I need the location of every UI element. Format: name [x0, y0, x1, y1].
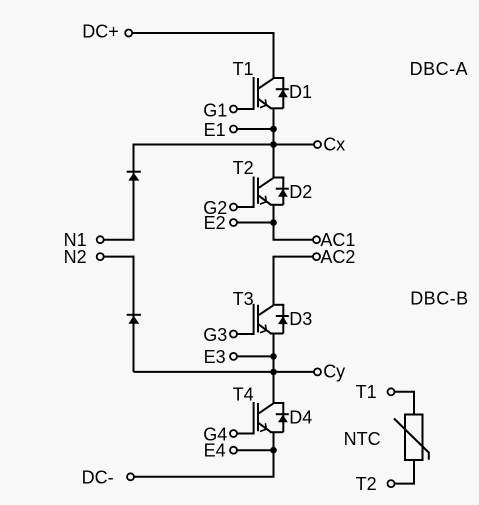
- terminal G4: [230, 430, 237, 437]
- terminal AC2: [313, 253, 320, 260]
- wire clamp branch A vertical: [133, 144, 135, 240]
- terminal Cy: [314, 368, 321, 375]
- wire T3 emitter to T4 collector: [273, 334, 275, 404]
- terminal AC1: [313, 236, 320, 243]
- terminal E1: [230, 126, 237, 133]
- svg-text:T4: T4: [233, 385, 254, 405]
- diode D4: [276, 414, 289, 422]
- wire DC+ rail horizontal: [132, 32, 273, 34]
- svg-text:Cy: Cy: [323, 362, 345, 382]
- thermistor NTC body: [405, 415, 423, 461]
- wire Cx row: [134, 144, 315, 146]
- junction Cy: [270, 369, 277, 376]
- clamp diode DN1: [127, 172, 141, 181]
- wire NTC T1 to thermistor: [394, 392, 414, 415]
- wire G1 lead: [237, 108, 254, 110]
- wire N2 lead: [104, 256, 135, 258]
- svg-text:G1: G1: [203, 101, 227, 121]
- svg-text:AC2: AC2: [320, 247, 355, 267]
- svg-text:DBC-B: DBC-B: [410, 288, 469, 308]
- svg-text:T1: T1: [356, 382, 377, 402]
- transistor T3: [254, 304, 285, 335]
- diode D1: [276, 89, 289, 97]
- wire Cy row: [134, 371, 315, 373]
- svg-text:D2: D2: [289, 182, 312, 202]
- wire AC2 to T3 collector: [274, 257, 314, 305]
- terminal E2: [230, 219, 237, 226]
- junction Cx: [270, 141, 277, 148]
- diode D2: [276, 189, 289, 197]
- svg-text:D4: D4: [289, 407, 312, 427]
- wire G2 lead: [237, 206, 254, 208]
- wire G3 lead: [237, 333, 254, 335]
- thermistor NTC diagonal mark: [394, 419, 429, 460]
- junction E2: [270, 219, 277, 226]
- wire E2 lead: [237, 222, 274, 224]
- junction E1: [270, 126, 277, 133]
- wire T2 emitter to AC1: [274, 205, 314, 240]
- terminal DC-: [127, 473, 134, 480]
- terminal G2: [230, 204, 237, 211]
- svg-text:T1: T1: [233, 59, 254, 79]
- terminal E4: [230, 447, 237, 454]
- svg-text:DC-: DC-: [82, 467, 114, 487]
- svg-text:N2: N2: [64, 247, 87, 267]
- terminal N1: [97, 236, 104, 243]
- diode D3: [276, 316, 289, 324]
- svg-text:D1: D1: [289, 82, 312, 102]
- terminal E3: [230, 353, 237, 360]
- wire DC+ drop to T1 collector: [273, 32, 275, 78]
- wire thermistor to NTC T2: [394, 460, 414, 484]
- terminal G1: [230, 106, 237, 113]
- svg-text:G3: G3: [203, 325, 227, 345]
- wire T4 emitter to DC- row: [133, 432, 273, 477]
- terminal NTC T1: [388, 388, 395, 395]
- wire E1 lead: [237, 128, 274, 130]
- svg-text:T3: T3: [233, 289, 254, 309]
- transistor T1: [254, 77, 285, 110]
- svg-text:E1: E1: [204, 120, 226, 140]
- transistor T2: [254, 177, 285, 209]
- svg-text:E3: E3: [204, 347, 226, 367]
- wire N1 lead: [104, 239, 135, 241]
- wire E4 lead: [237, 449, 274, 451]
- wire clamp branch B vertical: [133, 256, 135, 372]
- svg-text:DBC-A: DBC-A: [410, 59, 469, 79]
- terminal G3: [230, 331, 237, 338]
- terminal Cx: [314, 141, 321, 148]
- svg-text:E2: E2: [204, 213, 226, 233]
- svg-text:D3: D3: [289, 309, 312, 329]
- svg-text:DC+: DC+: [82, 22, 119, 42]
- wire E3 lead: [237, 355, 274, 357]
- svg-text:NTC: NTC: [344, 429, 381, 449]
- terminal DC+: [125, 30, 132, 37]
- wire T1 emitter to T2 collector: [273, 108, 275, 177]
- svg-text:Cx: Cx: [323, 134, 345, 154]
- terminal N2: [97, 253, 104, 260]
- junction E3: [270, 353, 277, 360]
- junction E4: [270, 447, 277, 454]
- wire G4 lead: [237, 433, 254, 435]
- clamp diode DN2: [127, 315, 141, 324]
- svg-text:E4: E4: [204, 441, 226, 461]
- svg-text:T2: T2: [356, 474, 377, 494]
- svg-text:T2: T2: [233, 158, 254, 178]
- terminal NTC T2: [388, 480, 395, 487]
- transistor T4: [254, 402, 285, 435]
